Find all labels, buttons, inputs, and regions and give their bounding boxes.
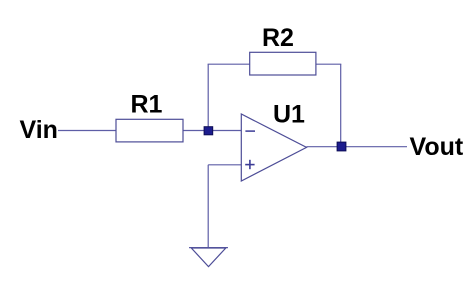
svg-text:R2: R2 xyxy=(262,24,294,52)
svg-text:R1: R1 xyxy=(131,91,163,119)
svg-text:U1: U1 xyxy=(273,101,305,129)
svg-text:Vout: Vout xyxy=(410,133,464,161)
svg-text:Vin: Vin xyxy=(20,116,58,144)
